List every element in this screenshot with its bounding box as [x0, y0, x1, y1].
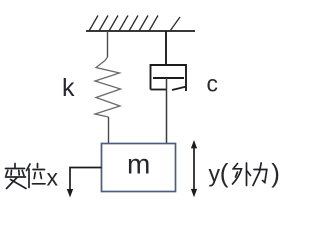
damper bottom-right lip (tilted) — [172, 87, 187, 91]
kanji 外 — [233, 164, 238, 170]
damper piston plate — [153, 77, 184, 79]
wire: spring top rod — [107, 31, 109, 57]
damper left wall — [150, 64, 152, 90]
svg-text:x: x — [47, 165, 59, 191]
svg-text:(: ( — [220, 158, 229, 188]
wire: damper top rod — [165, 31, 167, 65]
kanji 変 — [14, 164, 16, 168]
mass m box — [102, 144, 176, 192]
svg-text:m: m — [127, 149, 150, 180]
wire: spring bottom rod — [108, 117, 110, 144]
svg-text:c: c — [207, 71, 219, 97]
wire: damper piston rod to mass — [166, 78, 168, 144]
svg-text:k: k — [62, 74, 75, 102]
damper C cylinder cap — [151, 64, 187, 66]
force double arrow y — [193, 146, 195, 192]
damper right wall — [185, 64, 187, 91]
spring k (zigzag) — [95, 57, 121, 117]
kanji 力 — [254, 170, 267, 183]
label 変位 x — [6, 164, 46, 189]
ceiling — [86, 30, 195, 32]
damper bottom-left lip — [151, 89, 167, 91]
svg-text:y: y — [209, 161, 221, 187]
ceiling hatch marks — [89, 16, 180, 32]
displacement x arrow (corner line with down arrowhead) — [70, 168, 102, 190]
kanji 位 — [27, 164, 31, 171]
svg-text:): ) — [271, 158, 280, 188]
